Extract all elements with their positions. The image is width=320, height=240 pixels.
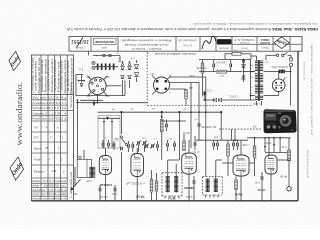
mains plug prongs	[289, 58, 292, 61]
resistor R7 right	[288, 150, 291, 161]
svg-text:M.F. 1: M.F. 1	[167, 196, 175, 200]
svg-text:1 TΩ: 1 TΩ	[183, 107, 188, 109]
svg-text:9 mF: 9 mF	[189, 74, 195, 77]
wire v228b	[231, 129, 233, 140]
socket A circle	[89, 77, 106, 94]
svg-text:≈ 0,1: ≈ 0,1	[206, 88, 212, 91]
svg-text:UY: UY	[284, 75, 288, 78]
svg-text:4 TΩ: 4 TΩ	[112, 192, 117, 195]
junction dots bus right	[254, 137, 256, 139]
coil box top circle	[79, 156, 81, 158]
svg-text:Raddrizz.: Raddrizz.	[34, 171, 45, 174]
wire socketB r1	[170, 76, 206, 78]
diode stack lower	[242, 76, 246, 79]
IF transformer 1 coils	[167, 177, 169, 193]
wire socketB r3	[170, 88, 187, 90]
wire v75	[74, 167, 76, 185]
svg-text:www.ondaradio.: www.ondaradio.	[14, 82, 24, 146]
wire v121	[120, 112, 122, 134]
svg-text:101: 101	[114, 137, 119, 140]
title block stamp cell	[94, 38, 117, 44]
diode stack upper	[242, 64, 246, 67]
capacitor C213	[213, 60, 215, 64]
capacitor below V3	[193, 176, 195, 180]
svg-text:Radio - Milano: Radio - Milano	[131, 47, 162, 51]
svg-text:0,05: 0,05	[86, 179, 91, 182]
svg-text:5 TΩ: 5 TΩ	[281, 145, 286, 148]
socket B pins	[156, 80, 159, 83]
resistor Rtop	[232, 52, 241, 55]
wire IF1	[167, 160, 169, 176]
svg-text:disegnato da: disegnato da	[178, 38, 197, 41]
svg-text:201: 201	[188, 86, 193, 89]
svg-text:nel Laboratorio Onda: nel Laboratorio Onda	[124, 43, 169, 47]
capacitor pair top	[102, 54, 105, 56]
wire r201 down	[185, 99, 187, 106]
svg-text:GN2: GN2	[104, 75, 110, 78]
wire tubeC right	[244, 71, 255, 73]
wire v161 lower	[161, 132, 163, 160]
wire v199 lower	[198, 112, 200, 120]
trimmer cluster	[137, 141, 139, 145]
tube V5	[265, 155, 277, 174]
logo Onda diamond lower-left	[9, 156, 25, 181]
tube V4 output	[233, 155, 249, 176]
diode D5	[134, 65, 138, 69]
svg-text:archivio schemi Onda: archivio schemi Onda	[306, 149, 310, 178]
diode D2	[128, 66, 132, 69]
svg-text:Catodo 2,1 1,4 58 . 4: Catodo 2,1 1,4 58 . 4	[32, 112, 67, 115]
svg-text:100: 100	[73, 192, 78, 195]
IF transformer 2 coils	[207, 179, 209, 192]
wire bus right	[247, 137, 291, 139]
rectifier tube V6	[272, 79, 285, 92]
oscillator coil box	[77, 159, 91, 177]
IF transformer 1 box	[162, 172, 182, 174]
wire arrow a	[80, 99, 103, 101]
svg-text:verificato: verificato	[218, 47, 229, 50]
wire V5	[268, 138, 270, 155]
wire mains lower	[266, 71, 279, 73]
wire rectifier	[278, 72, 280, 79]
svg-text:140: 140	[86, 75, 91, 78]
wire v205	[205, 77, 207, 112]
wire otc	[240, 99, 255, 101]
svg-text:B. Ferri: B. Ferri	[183, 44, 192, 48]
svg-text:tavola: tavola	[241, 46, 248, 49]
svg-text:L 44 F: L 44 F	[253, 102, 261, 106]
resistor R5	[227, 144, 230, 156]
tube V1 converter	[99, 156, 111, 175]
capacitor C199b	[198, 120, 200, 123]
wire V2	[136, 148, 138, 154]
components row small caps	[166, 143, 168, 147]
capacitor C230	[230, 60, 232, 64]
resistor R161	[160, 119, 163, 132]
transformer leads	[256, 56, 258, 61]
svg-text:visto: visto	[101, 46, 107, 50]
svg-text:+: +	[95, 54, 97, 58]
svg-text:UCH42: UCH42	[100, 183, 112, 187]
wire socketA bottom	[97, 94, 99, 102]
dashed divider bottom	[147, 105, 252, 107]
tube V3 IF amp	[182, 153, 197, 174]
svg-text:Anodica 2 215 6,3 1 v: Anodica 2 215 6,3 1 v	[32, 102, 67, 105]
svg-text:ONDA RADIO - Mod. 563/A Ricevi: ONDA RADIO - Mod. 563/A Ricevitore super…	[66, 27, 318, 31]
schematic frame bottom edge	[32, 200, 299, 202]
svg-text:Vista lato saldatura zoccoli: Vista lato saldatura zoccoli	[155, 52, 196, 56]
power transformer T1	[258, 60, 260, 101]
wire socketA right	[106, 85, 121, 87]
diode D1	[121, 66, 125, 69]
svg-text:≈ 30 TΩ: ≈ 30 TΩ	[183, 131, 191, 134]
wire v205 lower	[205, 112, 207, 176]
svg-text:collaudo: collaudo	[75, 46, 85, 50]
svg-text:7A 13: 7A 13	[136, 194, 145, 198]
svg-text:c. alternata volt: c. alternata volt	[70, 172, 73, 198]
electrolytic symbol small	[80, 84, 83, 87]
arrow marks above V5	[264, 146, 266, 149]
capacitor c2 under V1	[114, 185, 116, 188]
diode D6	[134, 73, 138, 77]
wire bus y71	[199, 71, 217, 73]
socket A stub lines	[88, 76, 92, 80]
wire v199	[198, 82, 200, 112]
wire left of transformer	[250, 60, 252, 101]
svg-text:Bassa: Bassa	[34, 148, 42, 151]
svg-text:Rilievi e schemi eseguiti: Rilievi e schemi eseguiti	[121, 39, 172, 43]
socket B stubs	[152, 76, 156, 80]
socket A pins	[101, 88, 103, 90]
svg-text:Corr. tot. 58 mA a 220: Corr. tot. 58 mA a 220	[32, 193, 67, 196]
svg-text:4 Ω: 4 Ω	[79, 68, 83, 72]
detector diode pair	[214, 98, 217, 101]
svg-text:≈ 0.0022 µF: ≈ 0.0022 µF	[125, 181, 145, 185]
svg-text:Rivel. dio. 0,8 -6,8 2 a: Rivel. dio. 0,8 -6,8 2 a	[32, 118, 67, 121]
svg-text:4F 5B: 4F 5B	[280, 174, 287, 178]
svg-text:≈ 500 014: ≈ 500 014	[216, 61, 228, 64]
svg-text:volt alternata: volt alternata	[35, 60, 38, 91]
wire IF2	[215, 160, 217, 179]
wire lower h	[76, 102, 147, 104]
diode D4	[128, 75, 132, 78]
svg-text:125-160-220 V 50 Hz: 125-160-220 V 50 Hz	[271, 65, 289, 68]
cluster above V4	[232, 143, 234, 147]
wire bus y59	[199, 59, 251, 61]
svg-text:Accens. 6,3 2 volt 4: Accens. 6,3 2 volt 4	[32, 189, 67, 192]
IF transformer 2 box	[203, 176, 223, 178]
svg-text:Osc. grid. 4,5 215 85 a: Osc. grid. 4,5 215 85 a	[32, 97, 67, 100]
wire tubeC top	[243, 60, 245, 83]
svg-text:≈ 30 TΩ: ≈ 30 TΩ	[229, 94, 238, 97]
svg-text:+: +	[116, 52, 118, 56]
wire mains	[266, 54, 276, 56]
resistor below V4	[235, 180, 238, 190]
svg-text:con altoparlante elettrodinami: con altoparlante elettrodinamico e trasf…	[193, 22, 317, 26]
wire main bus	[98, 111, 222, 113]
wire bus lower mid	[196, 139, 248, 141]
svg-text:UBF80: UBF80	[184, 186, 194, 190]
svg-text:8 F: 8 F	[252, 124, 256, 128]
svg-text:U C: U C	[219, 74, 224, 78]
svg-text:SCHEMA N. 8: SCHEMA N. 8	[234, 38, 255, 41]
wire V4	[240, 140, 242, 155]
dashed dial line	[219, 128, 262, 130]
cluster left V5	[260, 176, 262, 180]
gang section 2	[111, 118, 113, 148]
band switch comb	[91, 167, 93, 177]
terminal circle	[287, 187, 291, 191]
tube V2 IF	[131, 154, 144, 177]
cluster above V2	[127, 144, 129, 148]
svg-text:No TQ: No TQ	[99, 195, 108, 199]
band switch cluster	[120, 136, 122, 138]
title block Onda logo diamond	[274, 37, 289, 49]
wire V1	[104, 148, 106, 156]
filter capacitor bank	[97, 64, 99, 70]
dashed divider vertical	[146, 52, 148, 106]
svg-text:Tensioni misurate: Tensioni misurate	[70, 81, 73, 108]
wires right mid	[265, 152, 287, 154]
wire socketB r2	[170, 81, 200, 83]
tuning gang box	[98, 116, 120, 149]
junction dots bus	[120, 111, 122, 113]
svg-text:misur. con voltmetro a: misur. con voltmetro a	[32, 198, 67, 201]
title block signature	[202, 36, 216, 49]
logo Onda diamond upper-left	[8, 51, 22, 71]
svg-text:0,1 MΩ: 0,1 MΩ	[186, 195, 194, 199]
resistor R201	[185, 90, 188, 99]
svg-text:Filam. 6,3 2,3 misura: Filam. 6,3 2,3 misura	[32, 180, 67, 183]
capacitor mains pair	[279, 70, 281, 74]
title block frame	[69, 37, 302, 52]
svg-text:UL41: UL41	[234, 193, 242, 197]
wire cap row	[93, 55, 120, 57]
diode D3	[121, 75, 125, 78]
components row trimmers	[145, 144, 147, 148]
wire diode rails	[122, 80, 124, 96]
svg-text:5 6 3 / A: 5 6 3 / A	[240, 41, 249, 44]
svg-text:≈ 4 MF: ≈ 4 MF	[242, 143, 250, 146]
wire v235	[234, 129, 236, 140]
svg-text:47 TΩ: 47 TΩ	[193, 150, 200, 152]
resistor RUC	[217, 70, 227, 73]
wire v161	[161, 112, 163, 119]
svg-text:235: 235	[52, 170, 57, 173]
cluster above V3	[183, 141, 186, 151]
svg-text:per gentile concessione al sit: per gentile concessione al sito - www.on…	[310, 42, 314, 135]
wire to oscillator box	[77, 100, 79, 159]
svg-text:214: 214	[150, 72, 155, 75]
svg-text:Finale: Finale	[34, 159, 41, 162]
title block dark stamp	[217, 39, 232, 44]
wire bus corner down	[220, 112, 222, 140]
wire resistor top	[225, 53, 232, 55]
svg-text:Alta T. 2x285 50 per.: Alta T. 2x285 50 per.	[32, 185, 67, 188]
mains switch	[276, 54, 278, 56]
svg-text:A.F.: A.F.	[34, 127, 39, 130]
wire detector	[203, 99, 214, 101]
gang section 1	[103, 118, 105, 148]
svg-text:servizio tecnico: servizio tecnico	[302, 61, 306, 80]
svg-text:TRAS: TRAS	[264, 141, 271, 144]
svg-text:griglia schermo: griglia schermo	[47, 59, 50, 91]
svg-text:Schermo 85 6,3 2 12 a: Schermo 85 6,3 2 12 a	[32, 107, 67, 110]
radio photograph	[264, 109, 297, 133]
svg-text:UY41: UY41	[257, 188, 265, 192]
schematic frame right edge	[297, 51, 299, 201]
wire arrow b	[98, 117, 120, 119]
cluster above V1	[101, 143, 103, 147]
svg-text:16/1951: 16/1951	[71, 38, 89, 44]
pilot lamp	[92, 61, 95, 64]
voltage table grid	[32, 55, 74, 201]
wire v191	[190, 82, 192, 148]
wire left loop	[75, 74, 77, 95]
capacitor c1 under V1	[99, 185, 101, 188]
svg-text:REVISIONE: REVISIONE	[95, 40, 114, 44]
junction dots PSU	[78, 80, 80, 82]
pilot lamp 2	[92, 66, 95, 69]
wire V3	[188, 140, 190, 153]
resistor R4 between	[155, 181, 158, 191]
socket B circle	[154, 77, 170, 93]
resistor R202 vertical	[202, 60, 204, 64]
dial cord arrow	[72, 183, 78, 190]
capacitor beside R161	[165, 124, 167, 128]
svg-text:RADIO: RADIO	[260, 41, 270, 45]
svg-text:M.F.: M.F.	[34, 137, 39, 140]
svg-text:+: +	[118, 60, 120, 64]
svg-text:4F 200 Bl: 4F 200 Bl	[201, 125, 217, 128]
svg-text:Milano: Milano	[261, 46, 269, 49]
resistor R6 between	[253, 146, 256, 158]
svg-text:1 a2: 1 a2	[255, 181, 260, 183]
resistor R3 between	[150, 179, 153, 192]
svg-text:1 Ω: 1 Ω	[234, 48, 238, 51]
